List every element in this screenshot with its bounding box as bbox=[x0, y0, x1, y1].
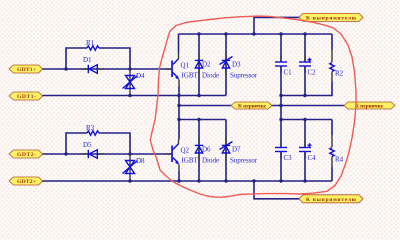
node junction emitter rail x199 bbox=[197, 94, 200, 97]
capacitor C2 bbox=[299, 34, 316, 77]
node junction gate wire x66 bbox=[64, 67, 67, 70]
node junction x281 y105.5 bbox=[279, 104, 282, 107]
wire GDT1- emitter rail bbox=[43, 95, 227, 97]
svg-text:Supressor: Supressor bbox=[230, 72, 258, 80]
svg-text:Supressor: Supressor bbox=[230, 157, 258, 165]
wire R4 lower pin to bus2 bbox=[331, 167, 333, 181]
transistor Q1 bbox=[165, 53, 199, 86]
node junction x281 y119.5 bbox=[279, 118, 282, 121]
wire R3 bypass loop bbox=[66, 133, 87, 154]
resistor R3 bbox=[87, 131, 99, 135]
svg-text:К выпрямителю: К выпрямителю bbox=[306, 197, 357, 203]
svg-text:К первичке: К первичке bbox=[355, 104, 384, 110]
node junction gate2 wire x130 bbox=[128, 152, 131, 155]
diode D6 bbox=[195, 120, 219, 182]
node junction lower-right rail x305 bbox=[303, 118, 306, 121]
svg-text:IGBT: IGBT bbox=[182, 72, 199, 80]
resistor R4 bbox=[330, 120, 344, 168]
wire GDT1+ to Q1 base bbox=[43, 68, 172, 70]
wire R1 bypass loop bbox=[66, 48, 87, 69]
wire Q2 emitter bbox=[178, 171, 180, 181]
svg-text:D5: D5 bbox=[83, 141, 92, 149]
wire C4 lower pin to bus2 bbox=[304, 152, 306, 182]
svg-text:C1: C1 bbox=[284, 69, 293, 77]
svg-text:R4: R4 bbox=[335, 156, 344, 164]
port GDT2+ bbox=[9, 177, 43, 185]
svg-text:К первичке: К первичке bbox=[238, 104, 267, 110]
svg-text:GDT1-: GDT1- bbox=[17, 94, 36, 100]
wire Q1 collector bbox=[178, 34, 180, 53]
node junction cap rail x305 bbox=[303, 94, 306, 97]
svg-text:D8: D8 bbox=[136, 157, 145, 165]
svg-text:C3: C3 bbox=[284, 154, 293, 162]
svg-text:GDT2-: GDT2- bbox=[17, 152, 36, 158]
wire GDT2- to Q2 base bbox=[43, 153, 172, 155]
diode D1 bbox=[81, 56, 104, 73]
wire riser to top rectifier label bbox=[254, 17, 299, 34]
wire cap mid rail bbox=[281, 82, 332, 96]
node junction bus2 x226 bbox=[224, 179, 227, 182]
diode D2 bbox=[195, 34, 219, 96]
wire output rail К первичке bbox=[179, 105, 344, 107]
svg-text:Diode: Diode bbox=[202, 157, 219, 165]
diode D8 (bidirectional suppressor) bbox=[123, 154, 146, 181]
port К выпрямителю (top) bbox=[299, 13, 363, 21]
capacitor C3 bbox=[275, 141, 292, 163]
wire riser to bottom rectifier label bbox=[254, 181, 299, 199]
svg-text:R3: R3 bbox=[86, 124, 95, 132]
diode D5 bbox=[81, 141, 104, 158]
node junction bus2 x179 bbox=[177, 179, 180, 182]
node junction bus2 x305 bbox=[303, 179, 306, 182]
svg-text:C4: C4 bbox=[308, 154, 317, 162]
node junction bus2 x254 bbox=[252, 179, 255, 182]
diode D7 (suppressor) bbox=[220, 120, 258, 182]
wire bottom DC- bus bbox=[43, 180, 333, 182]
node junction lower rail x179 bbox=[177, 118, 180, 121]
svg-text:Diode: Diode bbox=[202, 72, 219, 80]
svg-text:D3: D3 bbox=[232, 61, 241, 69]
wire C3 lower pin to bus2 bbox=[280, 152, 282, 182]
node junction bus1 x254 bbox=[252, 32, 255, 35]
node junction bus1 x281 bbox=[279, 32, 282, 35]
svg-text:D7: D7 bbox=[232, 146, 241, 154]
node junction emitter rail x130 bbox=[128, 94, 131, 97]
svg-text:Q2: Q2 bbox=[181, 147, 190, 155]
svg-text:К выпрямителю: К выпрямителю bbox=[306, 16, 357, 22]
node junction bus2 x130 bbox=[128, 179, 131, 182]
node junction bus1 x226 bbox=[224, 32, 227, 35]
wire lower-right rail bbox=[281, 119, 332, 121]
port GDT2- bbox=[9, 150, 43, 158]
port GDT1- bbox=[9, 92, 43, 100]
svg-text:D6: D6 bbox=[202, 146, 211, 154]
svg-text:R1: R1 bbox=[86, 39, 95, 47]
resistor R2 bbox=[330, 34, 344, 82]
svg-text:D4: D4 bbox=[136, 72, 145, 80]
node junction lower rail x199 bbox=[197, 118, 200, 121]
node junction gate wire x130 bbox=[128, 67, 131, 70]
diode D4 (bidirectional suppressor) bbox=[123, 69, 146, 96]
wire half-bridge mid vertical bbox=[178, 86, 180, 140]
capacitor C1 bbox=[275, 34, 292, 77]
node junction emitter rail x179 bbox=[177, 94, 180, 97]
svg-text:GDT1+: GDT1+ bbox=[17, 67, 36, 73]
svg-text:C2: C2 bbox=[308, 69, 317, 77]
svg-text:IGBT: IGBT bbox=[182, 157, 199, 165]
wire lower-left rail (Q2 collector node) bbox=[179, 119, 227, 121]
node junction bus2 x281 bbox=[279, 179, 282, 182]
port К выпрямителю (bottom) bbox=[299, 195, 363, 203]
svg-text:R2: R2 bbox=[335, 70, 344, 78]
wire top DC+ bus bbox=[179, 33, 333, 35]
resistor R1 bbox=[87, 46, 99, 50]
svg-text:D1: D1 bbox=[83, 56, 92, 64]
node junction bus1 x305 bbox=[303, 32, 306, 35]
port К первичке (left) bbox=[231, 102, 272, 110]
diode D3 (suppressor) bbox=[220, 34, 258, 96]
svg-text:GDT2+: GDT2+ bbox=[17, 179, 36, 185]
wire C-leg mid vertical bbox=[280, 66, 282, 148]
port GDT1+ bbox=[9, 65, 43, 73]
wire C2 lower pin to rail bbox=[304, 66, 306, 96]
transistor Q2 bbox=[165, 140, 199, 172]
capacitor C4 bbox=[299, 120, 316, 163]
node junction output rail x179 bbox=[177, 104, 180, 107]
node junction gate2 wire x66 bbox=[64, 152, 67, 155]
red hand-drawn annotation oval bbox=[150, 16, 356, 197]
node junction bus2 x199 bbox=[197, 179, 200, 182]
svg-text:Q1: Q1 bbox=[181, 62, 190, 70]
svg-text:D2: D2 bbox=[202, 61, 211, 69]
node junction bus1 x199 bbox=[197, 32, 200, 35]
node junction x281 y95.5 bbox=[279, 94, 282, 97]
port К первичке (right) bbox=[344, 102, 395, 110]
